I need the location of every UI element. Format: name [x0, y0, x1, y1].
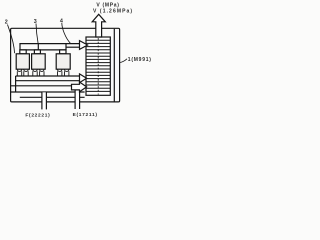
inner right wall: [113, 29, 115, 102]
manifold arrow A1 head: [80, 41, 88, 50]
pipe line L3: [16, 75, 80, 77]
valve cap unit1: [20, 50, 26, 54]
burner unit box 2b: [32, 54, 46, 69]
drain pipe F (vertical): [42, 92, 47, 110]
heat exchanger hatched box: [86, 37, 110, 95]
pipe line L6: [11, 91, 85, 93]
valve cap unit3: [60, 50, 66, 54]
nozzle loops unit2: [33, 69, 44, 76]
valve cap unit2: [34, 50, 40, 54]
hatch lines: [86, 40, 110, 91]
background: [0, 0, 157, 120]
pipe line L5: [11, 85, 72, 87]
steam outlet arrow (big, up): [92, 14, 105, 37]
feed drop unit3: [65, 44, 67, 50]
leader for label 4: [62, 23, 71, 43]
burner unit box 2c: [56, 54, 70, 69]
leader for label 2: [8, 25, 15, 54]
lower manifold line L2: [20, 49, 66, 51]
feed drop unit2: [37, 44, 39, 50]
leader for label 1: [120, 59, 127, 63]
svg-text:V (1.26MPa): V (1.26MPa): [93, 8, 133, 14]
left header vertical: [15, 76, 17, 92]
svg-text:1(M991): 1(M991): [128, 57, 152, 63]
burner unit box 2a: [16, 54, 29, 69]
manifold arrow A1 shaft bottom: [66, 46, 80, 48]
feed arrow A2 head: [80, 74, 87, 83]
pipe line L7: [20, 96, 85, 98]
svg-text:E(17211): E(17211): [73, 112, 98, 118]
svg-text:F(22221): F(22221): [25, 113, 50, 119]
drain pipe E (vertical): [75, 90, 80, 109]
feed arrow A3 (block): [72, 82, 87, 92]
nozzle loops unit1: [17, 69, 28, 76]
leader for label 3: [36, 24, 38, 44]
svg-text:3: 3: [34, 19, 37, 25]
svg-text:4: 4: [60, 18, 63, 24]
casing outline 1: [11, 28, 120, 102]
svg-text:2: 2: [5, 20, 8, 26]
upper manifold line L1: [20, 44, 80, 50]
pipe line L4: [16, 80, 80, 82]
nozzle loops unit3: [58, 69, 69, 76]
dashed centerline of exchanger: [97, 38, 99, 95]
